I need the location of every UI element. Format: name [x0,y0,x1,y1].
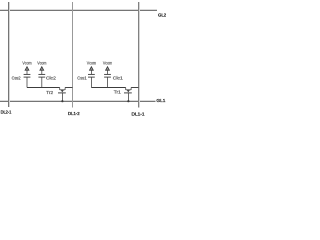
svg-text:DL1-1: DL1-1 [132,111,146,116]
svg-text:Clc2: Clc2 [46,75,56,80]
svg-text:Css2: Css2 [12,76,21,81]
svg-text:Vcom: Vcom [87,61,96,66]
svg-text:DL2-1: DL2-1 [1,110,12,115]
svg-text:DL1-2: DL1-2 [68,111,80,116]
svg-text:Tr2: Tr2 [46,90,53,95]
svg-text:GL2: GL2 [158,12,166,17]
svg-text:Clc1: Clc1 [113,75,124,80]
svg-text:Vcom: Vcom [103,61,112,66]
svg-text:Vcom: Vcom [22,61,31,66]
svg-text:Tr1: Tr1 [114,89,122,94]
svg-text:Css1: Css1 [77,75,87,80]
svg-text:GL1: GL1 [156,98,165,103]
svg-text:Vcom: Vcom [37,61,46,66]
